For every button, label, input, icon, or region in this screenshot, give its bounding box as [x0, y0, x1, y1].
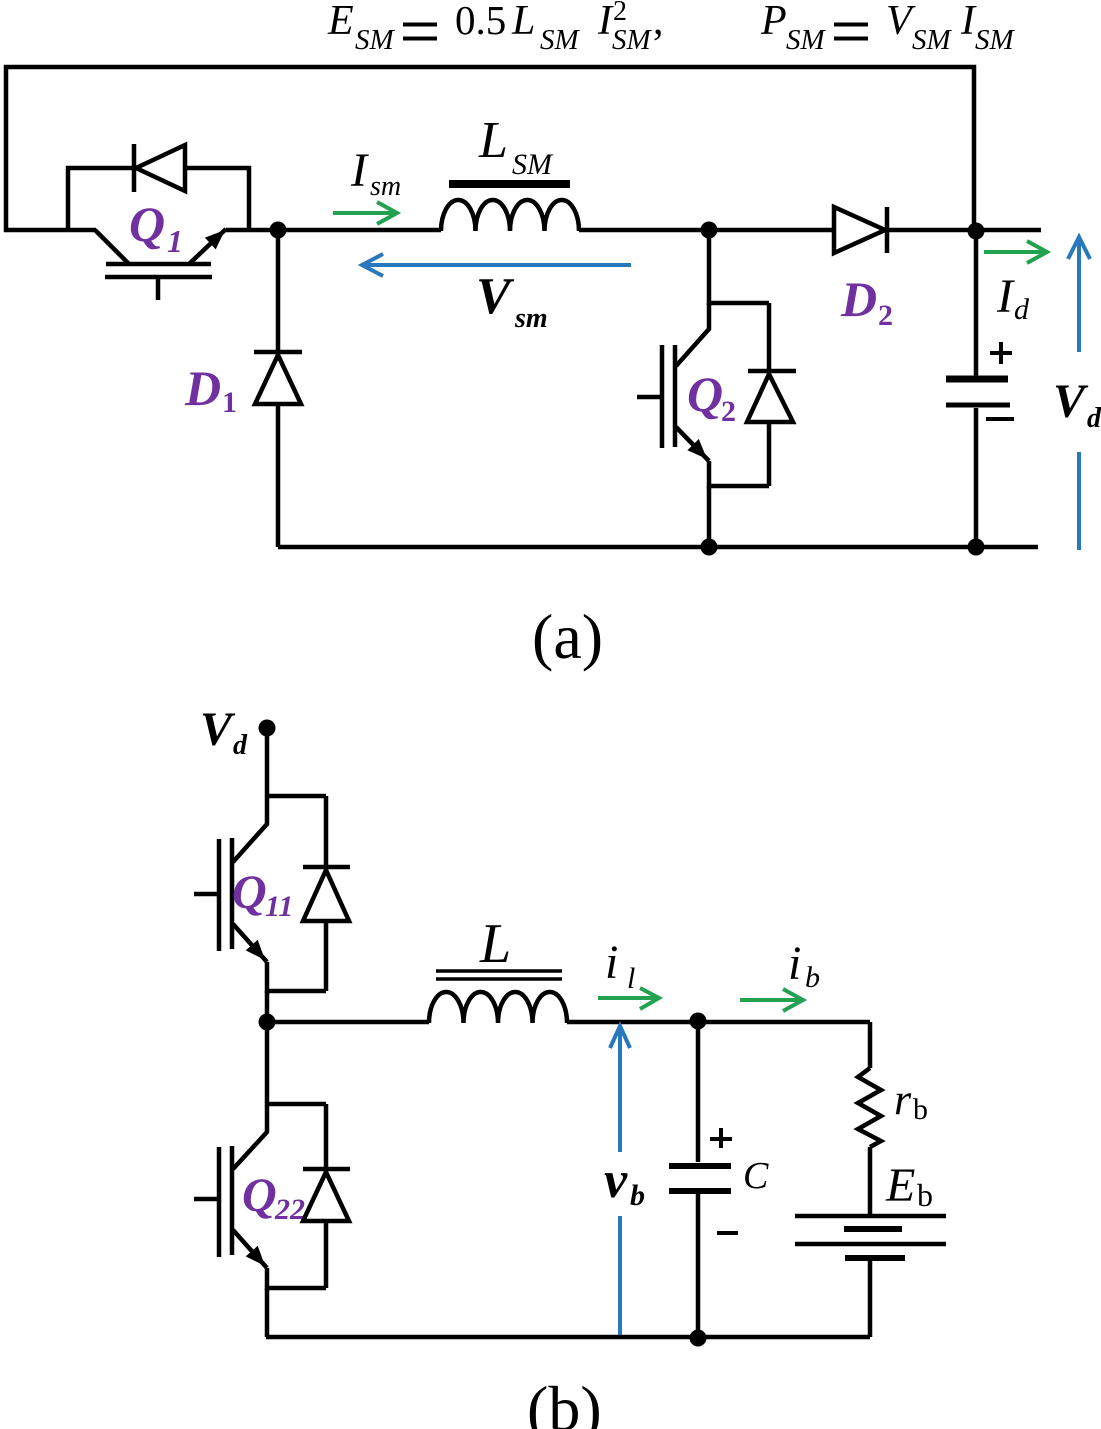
svg-text:r: r: [894, 1075, 912, 1124]
transistor Q2 (IGBT with antiparallel diode): [637, 230, 796, 547]
svg-text:I: I: [350, 144, 369, 197]
svg-text:d: d: [1087, 403, 1101, 434]
svg-text:SM: SM: [512, 148, 554, 181]
label Q2: [687, 366, 736, 428]
CIRCUIT A: [4, 67, 1090, 556]
svg-text:i: i: [605, 936, 618, 989]
svg-text:Q: Q: [242, 1169, 277, 1222]
value label P_SM = V_SM I_SM: [760, 0, 1016, 56]
wire Vd terminal to Q11: [265, 728, 270, 796]
node junction at half-bridge midpoint: [259, 1014, 276, 1031]
svg-text:l: l: [627, 962, 635, 995]
svg-text:0.5: 0.5: [455, 0, 506, 43]
resistor r_b: [858, 1022, 881, 1214]
svg-text:b: b: [805, 961, 820, 994]
arrow v_b (blue, up): [610, 1026, 630, 1335]
battery E_b: [795, 1216, 946, 1337]
svg-text:SM: SM: [912, 24, 953, 56]
svg-text:2: 2: [878, 299, 893, 332]
wire midpoint to inductor: [267, 1020, 429, 1025]
svg-text:d: d: [233, 730, 248, 761]
svg-text:i: i: [788, 937, 801, 990]
svg-text:v: v: [604, 1152, 628, 1209]
label D1: [184, 360, 237, 419]
svg-text:b: b: [630, 1179, 645, 1212]
svg-text:1: 1: [167, 223, 183, 259]
svg-text:d: d: [1014, 293, 1030, 326]
arrow i_l (green): [598, 988, 659, 1009]
svg-text:C: C: [743, 1155, 769, 1197]
svg-text:SM: SM: [786, 24, 827, 56]
label D2: [840, 271, 893, 332]
arrow i_b (green): [740, 989, 803, 1011]
svg-text:V: V: [1053, 375, 1089, 428]
wire main rail Q1 to inductor: [226, 228, 441, 233]
svg-text:P: P: [760, 0, 787, 44]
EQUATION: [327, 0, 1016, 56]
svg-text:Q: Q: [232, 866, 267, 919]
node junction at capacitor top (b): [690, 1013, 707, 1030]
svg-text:1: 1: [222, 386, 237, 419]
svg-text:Q: Q: [129, 196, 165, 252]
arrow V_sm (blue): [362, 254, 631, 276]
label Q11: [232, 866, 293, 923]
svg-text:I: I: [996, 270, 1015, 323]
node junction at Q2 top: [701, 222, 718, 239]
arrow V_d (blue, up): [1068, 237, 1090, 550]
svg-text:V: V: [200, 703, 236, 756]
capacitor C: [669, 1021, 738, 1339]
svg-text:L: L: [511, 0, 535, 44]
svg-text:L: L: [479, 913, 511, 975]
svg-text:b: b: [917, 1177, 933, 1213]
value label E_SM = 0.5 L_SM I^2_SM,: [327, 0, 664, 56]
svg-text:D: D: [840, 271, 877, 327]
transistor Q22 (IGBT with antiparallel diode): [194, 1104, 350, 1337]
diode D1: [254, 230, 302, 547]
svg-text:E: E: [327, 0, 354, 44]
svg-text:2: 2: [613, 0, 627, 27]
wire outer feedback loop (left-top-right): [6, 67, 974, 232]
svg-text:b: b: [913, 1093, 928, 1126]
node junction at D1 top: [270, 222, 287, 239]
svg-text:(b): (b): [527, 1373, 602, 1429]
svg-text:E: E: [885, 1159, 915, 1212]
transistor Q1 (horizontal IGBT): [95, 229, 226, 300]
wire bottom rail of circuit a: [278, 545, 1038, 550]
svg-text:,: ,: [653, 0, 664, 44]
label V_d (b) (bold): [200, 703, 248, 761]
diode antiparallel across Q1: [68, 144, 249, 230]
node junction at capacitor top: [968, 223, 985, 240]
arrow I_d (green): [984, 241, 1047, 263]
svg-text:SM: SM: [355, 24, 396, 56]
node junction bottom capacitor (b): [690, 1330, 707, 1347]
inductor L_SM: [441, 180, 579, 231]
svg-text:L: L: [478, 112, 508, 169]
node junction bottom Q2: [701, 539, 718, 556]
wire bottom rail of circuit b: [266, 1335, 870, 1340]
svg-text:Q: Q: [687, 366, 723, 422]
label V_sm (bold): [476, 268, 548, 334]
wire rail right stub: [976, 228, 1041, 233]
svg-text:2: 2: [721, 395, 736, 428]
label Q1: [129, 196, 183, 259]
svg-text:sm: sm: [514, 303, 548, 334]
svg-text:SM: SM: [975, 24, 1016, 56]
svg-text:22: 22: [274, 1193, 305, 1226]
wire main rail left segment into Q1: [4, 228, 96, 233]
svg-text:SM: SM: [540, 24, 581, 56]
node junction bottom capacitor: [968, 539, 985, 556]
transistor Q11 (IGBT with antiparallel diode): [194, 796, 350, 991]
label v_b (bold): [604, 1152, 645, 1212]
svg-text:V: V: [476, 268, 515, 325]
arrow I_sm (green): [333, 202, 397, 224]
wire inductor to rb branch: [567, 1020, 870, 1025]
svg-text:(a): (a): [532, 601, 603, 672]
svg-text:SM: SM: [612, 24, 653, 56]
svg-text:sm: sm: [370, 171, 401, 202]
label Q22: [242, 1169, 305, 1226]
wire main rail inductor to Q2 node: [579, 228, 834, 233]
label V_d right (bold): [1053, 375, 1101, 434]
capacitor Vd link: [946, 231, 1014, 547]
svg-text:D: D: [184, 360, 221, 416]
wire Q11 emitter down through node to Q22: [265, 991, 270, 1104]
inductor L: [429, 971, 567, 1023]
node Vd terminal dot: [259, 720, 276, 737]
CIRCUIT B: [194, 720, 946, 1347]
diode D2: [834, 207, 974, 253]
svg-text:11: 11: [265, 890, 293, 923]
